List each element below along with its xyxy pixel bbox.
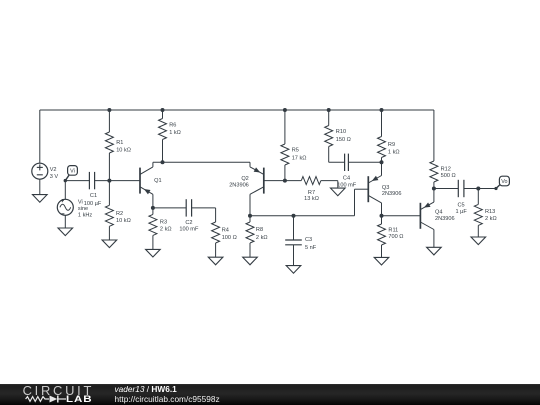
svg-text:2N3906: 2N3906 <box>382 191 402 197</box>
svg-text:Vi: Vi <box>78 200 83 206</box>
svg-text:R6: R6 <box>169 122 176 128</box>
svg-text:500 Ω: 500 Ω <box>441 173 456 179</box>
svg-text:100 µF: 100 µF <box>84 201 102 207</box>
svg-text:100 Ω: 100 Ω <box>222 235 237 241</box>
svg-text:1 kΩ: 1 kΩ <box>169 130 181 136</box>
svg-text:1 µF: 1 µF <box>455 209 467 215</box>
svg-text:3 V: 3 V <box>50 174 59 180</box>
svg-text:R10: R10 <box>336 129 346 135</box>
svg-text:V2: V2 <box>50 167 57 173</box>
svg-text:C1: C1 <box>90 193 97 199</box>
svg-text:R11: R11 <box>388 227 398 233</box>
svg-text:R5: R5 <box>292 148 299 154</box>
svg-text:1 kHz: 1 kHz <box>78 212 93 218</box>
svg-text:R8: R8 <box>256 227 263 233</box>
svg-text:1 kΩ: 1 kΩ <box>388 150 400 156</box>
svg-text:R7: R7 <box>308 190 315 196</box>
svg-text:Q1: Q1 <box>154 178 161 184</box>
svg-text:R2: R2 <box>116 211 123 217</box>
svg-text:R12: R12 <box>441 166 451 172</box>
svg-text:R13: R13 <box>485 209 495 215</box>
svg-text:sine: sine <box>78 206 88 212</box>
svg-text:C2: C2 <box>185 220 192 226</box>
svg-text:10 kΩ: 10 kΩ <box>116 218 131 224</box>
svg-text:R9: R9 <box>388 142 395 148</box>
svg-text:100 mF: 100 mF <box>337 182 357 188</box>
svg-text:Vi: Vi <box>70 168 75 174</box>
svg-text:Vo: Vo <box>501 179 507 185</box>
svg-text:2N3906: 2N3906 <box>435 216 455 222</box>
svg-text:700 Ω: 700 Ω <box>388 234 403 240</box>
svg-text:13 kΩ: 13 kΩ <box>304 196 319 202</box>
svg-text:100 mF: 100 mF <box>179 226 199 232</box>
svg-text:5 nF: 5 nF <box>305 245 317 251</box>
svg-text:2 kΩ: 2 kΩ <box>485 216 497 222</box>
svg-text:R3: R3 <box>160 219 167 225</box>
svg-text:Q3: Q3 <box>382 185 389 191</box>
svg-text:Q4: Q4 <box>435 209 442 215</box>
svg-text:C5: C5 <box>458 202 465 208</box>
svg-text:2N3906: 2N3906 <box>229 183 249 189</box>
svg-text:C4: C4 <box>343 176 350 182</box>
svg-text:R4: R4 <box>222 227 229 233</box>
svg-text:R1: R1 <box>116 140 123 146</box>
svg-text:10 kΩ: 10 kΩ <box>116 147 131 153</box>
svg-text:2 kΩ: 2 kΩ <box>160 226 172 232</box>
svg-text:2 kΩ: 2 kΩ <box>256 235 268 241</box>
svg-text:C3: C3 <box>305 237 312 243</box>
svg-text:150 Ω: 150 Ω <box>336 137 351 143</box>
svg-text:17 kΩ: 17 kΩ <box>292 155 307 161</box>
svg-text:Q2: Q2 <box>241 176 248 182</box>
